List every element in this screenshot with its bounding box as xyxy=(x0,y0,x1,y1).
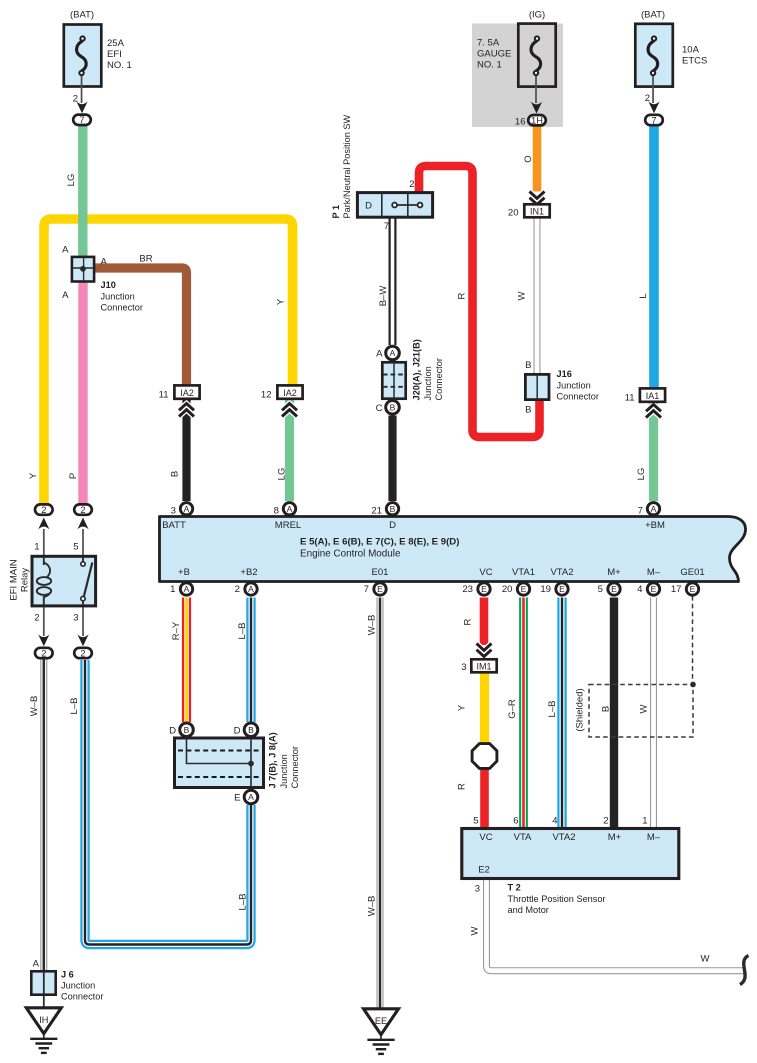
svg-text:LG: LG xyxy=(66,174,77,187)
svg-text:IM1: IM1 xyxy=(476,662,491,672)
svg-text:E: E xyxy=(690,584,696,594)
svg-text:16: 16 xyxy=(515,117,526,128)
svg-text:B–W: B–W xyxy=(378,286,389,307)
svg-text:C: C xyxy=(376,403,383,414)
svg-text:A: A xyxy=(248,792,254,802)
svg-text:GAUGE: GAUGE xyxy=(477,49,511,60)
svg-text:(Shielded): (Shielded) xyxy=(575,688,586,731)
svg-text:20: 20 xyxy=(508,208,519,219)
svg-text:Junction: Junction xyxy=(423,366,433,400)
svg-text:+BM: +BM xyxy=(645,520,665,531)
svg-text:20: 20 xyxy=(502,584,513,595)
svg-text:NO. 1: NO. 1 xyxy=(107,60,132,71)
svg-text:VC: VC xyxy=(479,567,492,578)
svg-text:2: 2 xyxy=(73,94,78,105)
svg-text:E: E xyxy=(611,584,617,594)
svg-text:E: E xyxy=(651,584,657,594)
svg-text:T 2: T 2 xyxy=(508,883,521,893)
svg-text:A: A xyxy=(376,349,383,360)
svg-text:W–B: W–B xyxy=(29,696,40,717)
svg-text:R: R xyxy=(457,292,468,299)
svg-text:L: L xyxy=(638,293,649,298)
svg-text:(IG): (IG) xyxy=(529,9,545,20)
svg-text:LG: LG xyxy=(277,468,288,481)
svg-text:EFI: EFI xyxy=(107,49,122,60)
svg-text:11: 11 xyxy=(159,390,169,401)
svg-text:W–B: W–B xyxy=(367,615,378,636)
svg-text:E: E xyxy=(481,584,487,594)
svg-text:1: 1 xyxy=(170,584,175,595)
svg-text:A: A xyxy=(390,348,396,358)
svg-text:2: 2 xyxy=(645,93,650,104)
svg-text:VC: VC xyxy=(479,832,492,843)
svg-text:2: 2 xyxy=(34,613,39,624)
svg-text:L–B: L–B xyxy=(238,894,249,911)
svg-text:E01: E01 xyxy=(372,567,389,578)
svg-text:VTA2: VTA2 xyxy=(552,832,575,843)
svg-text:Connector: Connector xyxy=(290,746,300,788)
svg-text:Relay: Relay xyxy=(20,568,31,593)
svg-text:19: 19 xyxy=(540,584,551,595)
svg-text:LG: LG xyxy=(636,468,647,481)
svg-text:D: D xyxy=(389,520,396,531)
svg-text:VTA: VTA xyxy=(514,832,532,843)
svg-text:Connector: Connector xyxy=(101,303,143,313)
svg-text:B: B xyxy=(525,405,531,416)
svg-text:P 1: P 1 xyxy=(331,205,341,219)
svg-text:1H: 1H xyxy=(531,116,543,126)
svg-text:8: 8 xyxy=(274,505,279,516)
svg-text:12: 12 xyxy=(261,390,272,401)
svg-text:L–B: L–B xyxy=(547,701,558,718)
svg-text:4: 4 xyxy=(552,816,557,827)
svg-text:E: E xyxy=(234,793,240,804)
svg-text:EE: EE xyxy=(375,1016,387,1026)
svg-text:Connector: Connector xyxy=(434,358,444,400)
svg-text:Y: Y xyxy=(457,704,468,711)
svg-text:B: B xyxy=(390,504,396,514)
svg-text:IA2: IA2 xyxy=(283,388,297,398)
svg-text:7. 5A: 7. 5A xyxy=(477,38,500,49)
svg-text:21: 21 xyxy=(371,505,382,516)
svg-text:Y: Y xyxy=(276,298,287,305)
svg-text:Y: Y xyxy=(28,472,39,479)
svg-text:3: 3 xyxy=(73,613,78,624)
svg-text:Connector: Connector xyxy=(557,392,599,402)
svg-text:GE01: GE01 xyxy=(680,567,704,578)
svg-text:B: B xyxy=(248,725,254,735)
svg-text:O: O xyxy=(523,155,534,162)
svg-text:MREL: MREL xyxy=(275,520,301,531)
svg-text:BATT: BATT xyxy=(162,520,186,531)
svg-text:IA2: IA2 xyxy=(180,388,194,398)
svg-text:E: E xyxy=(521,584,527,594)
svg-text:E: E xyxy=(559,584,565,594)
svg-text:VTA1: VTA1 xyxy=(512,567,535,578)
svg-text:2: 2 xyxy=(41,505,46,515)
svg-text:VTA2: VTA2 xyxy=(550,567,573,578)
svg-text:A: A xyxy=(33,959,40,970)
svg-text:D: D xyxy=(365,201,372,212)
svg-text:E: E xyxy=(377,584,383,594)
svg-text:A: A xyxy=(184,584,190,594)
svg-text:7: 7 xyxy=(638,505,643,516)
svg-text:23: 23 xyxy=(462,584,473,595)
svg-text:Junction: Junction xyxy=(279,754,289,788)
svg-text:J20(A), J21(B): J20(A), J21(B) xyxy=(412,339,422,400)
svg-text:+B: +B xyxy=(178,567,190,578)
svg-text:IN1: IN1 xyxy=(530,207,544,217)
svg-text:IH: IH xyxy=(39,1015,48,1025)
svg-text:M+: M+ xyxy=(607,567,621,578)
svg-text:7: 7 xyxy=(364,584,369,595)
svg-text:M–: M– xyxy=(647,567,661,578)
svg-text:Connector: Connector xyxy=(61,992,103,1002)
svg-text:IA1: IA1 xyxy=(646,391,660,401)
svg-text:M–: M– xyxy=(647,832,661,843)
svg-text:J 7(B), J 8(A): J 7(B), J 8(A) xyxy=(268,732,278,788)
svg-text:2: 2 xyxy=(603,816,608,827)
svg-text:7: 7 xyxy=(79,115,84,125)
svg-text:R–Y: R–Y xyxy=(171,621,182,640)
svg-text:17: 17 xyxy=(671,584,682,595)
svg-text:B: B xyxy=(170,471,181,477)
svg-text:D: D xyxy=(169,725,176,736)
svg-text:3: 3 xyxy=(475,884,480,895)
svg-text:2: 2 xyxy=(80,505,85,515)
svg-text:B: B xyxy=(601,706,612,712)
svg-text:J10: J10 xyxy=(101,280,116,290)
svg-text:7: 7 xyxy=(651,115,656,125)
svg-text:Engine Control Module: Engine Control Module xyxy=(300,549,401,560)
svg-text:10A: 10A xyxy=(682,45,700,56)
svg-text:W: W xyxy=(517,291,528,300)
svg-text:2: 2 xyxy=(409,179,414,190)
svg-text:BR: BR xyxy=(139,254,152,265)
svg-text:(BAT): (BAT) xyxy=(70,9,94,20)
svg-text:6: 6 xyxy=(513,816,518,827)
svg-text:5: 5 xyxy=(473,816,478,827)
svg-text:R: R xyxy=(457,783,468,790)
svg-text:P: P xyxy=(68,473,79,479)
svg-text:2: 2 xyxy=(80,648,85,658)
svg-text:M+: M+ xyxy=(608,832,622,843)
svg-text:A: A xyxy=(62,290,69,301)
svg-text:3: 3 xyxy=(461,662,466,673)
svg-text:L–B: L–B xyxy=(237,623,248,640)
svg-text:1: 1 xyxy=(34,542,39,553)
svg-text:B: B xyxy=(525,360,531,371)
svg-text:J 6: J 6 xyxy=(61,970,74,980)
svg-text:B: B xyxy=(390,402,396,412)
svg-text:+B2: +B2 xyxy=(240,567,257,578)
svg-text:4: 4 xyxy=(637,584,643,595)
svg-text:E2: E2 xyxy=(478,865,490,876)
svg-text:W: W xyxy=(470,926,481,935)
svg-text:2: 2 xyxy=(235,584,240,595)
svg-text:B: B xyxy=(184,725,190,735)
svg-text:5: 5 xyxy=(598,584,603,595)
svg-text:Junction: Junction xyxy=(557,381,591,391)
svg-text:1: 1 xyxy=(642,816,647,827)
svg-text:W: W xyxy=(639,704,650,713)
svg-text:3: 3 xyxy=(171,505,176,516)
svg-text:W–B: W–B xyxy=(367,896,378,917)
svg-text:7: 7 xyxy=(384,221,389,232)
svg-text:ETCS: ETCS xyxy=(682,56,707,67)
svg-text:A: A xyxy=(62,245,69,256)
svg-text:W: W xyxy=(701,954,710,965)
svg-text:L–B: L–B xyxy=(69,698,80,715)
svg-text:D: D xyxy=(234,725,241,736)
svg-text:5: 5 xyxy=(73,542,78,553)
svg-text:Junction: Junction xyxy=(101,292,135,302)
svg-text:11: 11 xyxy=(625,393,635,404)
svg-text:Junction: Junction xyxy=(61,981,95,991)
svg-text:2: 2 xyxy=(41,648,46,658)
svg-text:R: R xyxy=(463,618,474,625)
svg-text:NO. 1: NO. 1 xyxy=(477,60,502,71)
svg-text:A: A xyxy=(651,504,657,514)
svg-text:(BAT): (BAT) xyxy=(641,9,665,20)
svg-text:A: A xyxy=(287,504,293,514)
svg-text:G–R: G–R xyxy=(507,699,518,719)
svg-text:and Motor: and Motor xyxy=(508,905,549,915)
svg-text:A: A xyxy=(248,584,254,594)
svg-text:25A: 25A xyxy=(107,38,125,49)
svg-text:J16: J16 xyxy=(557,369,572,379)
svg-text:EFI MAIN: EFI MAIN xyxy=(9,559,20,600)
svg-text:E 5(A), E 6(B), E 7(C), E 8(E): E 5(A), E 6(B), E 7(C), E 8(E), E 9(D) xyxy=(300,537,459,548)
svg-text:Park/Neutral Position SW: Park/Neutral Position SW xyxy=(342,115,352,219)
svg-text:Throttle Position Sensor: Throttle Position Sensor xyxy=(508,894,606,904)
svg-text:A: A xyxy=(184,504,190,514)
svg-text:A: A xyxy=(101,257,108,268)
